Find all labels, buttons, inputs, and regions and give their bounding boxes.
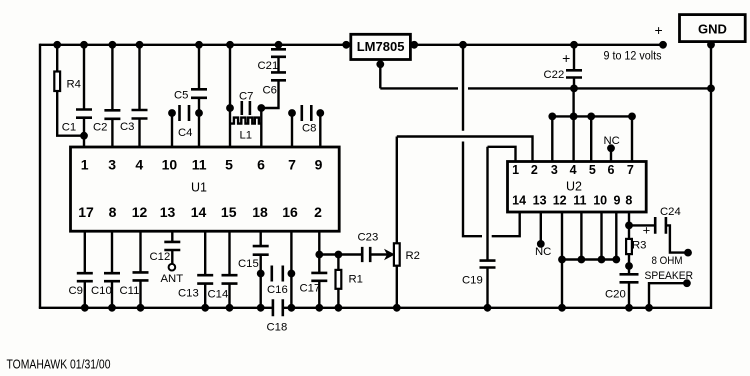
label C15 (238, 258, 259, 270)
junction: + supply terminal (659, 41, 667, 49)
label 8 OHM (652, 255, 683, 267)
label + (battery positive) (655, 22, 663, 38)
junction: ground link at right border (707, 85, 715, 93)
pin 10 label (U2 bottom row) (593, 194, 607, 208)
junction: ground rail at C18 right (288, 304, 296, 312)
label C9 (69, 285, 83, 297)
wire: U1 pin 2 column (318, 231, 320, 273)
junction: C16 left node (257, 270, 265, 278)
capacitor C2 (104, 110, 120, 119)
svg-text:GND: GND (698, 22, 727, 37)
pin 4 label (U2 top row) (570, 163, 577, 177)
junction: ground rail at R1 (335, 304, 343, 312)
capacitor C16 (272, 266, 283, 282)
junction: top bus at pin 7 (628, 113, 636, 121)
junction: C16 right node (288, 270, 296, 278)
wire: bottom ground rail (C18 to right border) (283, 307, 711, 309)
wire: C24 to speaker + terminal (666, 225, 688, 252)
junction: ground rail at C13 (201, 304, 209, 312)
svg-text:C11: C11 (120, 285, 140, 297)
label C20 (605, 289, 626, 301)
wire: U1 pin 13 to C12 (171, 231, 173, 242)
label C3 (120, 121, 134, 133)
wire: C22 bottom lead to ground link (573, 78, 575, 89)
label + (C24 polarity) (643, 223, 651, 238)
svg-text:C23: C23 (358, 232, 379, 244)
svg-text:C5: C5 (174, 90, 188, 102)
wire: R2 bottom lead to ground rail (396, 266, 398, 308)
pin 9 label (U2 bottom row) (614, 194, 621, 208)
wire: R2 wiper node to U2 pin 2 (397, 137, 533, 162)
svg-text:C10: C10 (91, 285, 112, 297)
wire: C9 to ground rail (84, 281, 86, 308)
svg-text:10: 10 (162, 157, 178, 173)
junction: top rail at R4 (53, 41, 61, 49)
junction: ground rail at C11 (137, 304, 145, 312)
wire: U1 pin 16 column to ground rail (290, 231, 292, 308)
junction: C8 left node (288, 109, 296, 117)
label R2 (406, 250, 420, 262)
svg-text:C2: C2 (93, 122, 107, 134)
pin 13 label (U1 bottom row) (160, 204, 176, 220)
junction: bottom bus at pin 12 (558, 256, 566, 264)
capacitor C14 (222, 275, 238, 283)
svg-text:C15: C15 (238, 258, 259, 270)
junction: top rail at C3 (136, 41, 144, 49)
pin 8 label (U1 bottom row) (109, 204, 117, 220)
junction: top rail at C22 (570, 41, 578, 49)
junction: ground rail at R2 (393, 304, 401, 312)
svg-text:2: 2 (314, 204, 322, 220)
wire: C15 to C16/C18 column (260, 255, 262, 308)
junction: C8 right node (316, 109, 324, 117)
pin 1 label (U2 top row) (512, 163, 519, 177)
pin 18 label (U1 bottom row) (252, 204, 268, 220)
svg-text:C24: C24 (660, 206, 681, 218)
pin 7 label (U1 top row) (288, 157, 296, 173)
capacitor C12 (164, 242, 180, 250)
svg-text:+: + (655, 22, 663, 38)
wire: C2 top lead (111, 45, 113, 111)
wire: C19 top node to U2 pin 1 (488, 147, 516, 162)
wire: U1 pin 12 to C11 (139, 231, 141, 272)
capacitor C11 (133, 272, 149, 280)
label U2 (566, 180, 582, 194)
junction: ground rail at U2 pin 12 column (558, 304, 566, 312)
junction: C7 left node (226, 104, 234, 112)
svg-text:9: 9 (315, 157, 323, 173)
wire: C23 to R2 wiper (370, 253, 388, 255)
wire: right border bus from GND (710, 41, 712, 309)
capacitor C9 (77, 273, 93, 281)
wire: C22 node down to U2 pin 4 (572, 88, 574, 161)
ground terminal GND (680, 15, 746, 42)
wire: R4 bottom lead to C1 node (57, 91, 84, 136)
label C14 (208, 289, 229, 301)
capacitor C18 (in ground rail) (273, 299, 283, 316)
label C1 (62, 122, 76, 134)
pin 11 label (U1 top row) (192, 157, 207, 173)
label LM7805 (357, 39, 405, 54)
svg-text:6: 6 (608, 163, 615, 177)
wire: pin 5 column (rail to U1 pin 5) (229, 45, 231, 147)
junction: ground rail at C20 (625, 304, 633, 312)
label GND (698, 22, 727, 37)
wire: R4 top lead (56, 45, 58, 72)
svg-text:C7: C7 (239, 91, 253, 103)
label title TOMAHAWK 01/31/00 (7, 358, 111, 372)
label 9 to 12 volts (604, 51, 662, 63)
svg-text:C8: C8 (302, 123, 316, 135)
svg-text:11: 11 (192, 157, 207, 173)
junction: LM7805 input pin (342, 41, 350, 49)
pin 9 label (U1 top row) (315, 157, 323, 173)
pin 1 label (U1 top row) (81, 157, 89, 173)
junction: pin 2 node (C17/R1/C23) (315, 251, 323, 259)
svg-text:16: 16 (282, 204, 298, 220)
label NC (U2 pin 13) (535, 246, 551, 258)
junction: C7 right / L1 / C6 node (257, 104, 265, 112)
capacitor C4 (180, 105, 190, 121)
wire: C11 to ground rail (139, 280, 141, 307)
pin 2 label (U1 bottom row) (314, 204, 322, 220)
label L1 (240, 130, 253, 142)
wire: R3/C20 node to C20 (628, 266, 630, 274)
pin 4 label (U1 top row) (135, 157, 143, 173)
potentiometer R2 (394, 243, 400, 265)
pin 3 label (U2 top row) (551, 163, 558, 177)
wire: top +V supply rail (LM7805 output to + terminal) (414, 44, 663, 46)
svg-text:R1: R1 (349, 274, 363, 286)
junction: bottom bus at pin 11 (578, 256, 586, 264)
wire: left border bus (39, 44, 41, 308)
label C2 (93, 122, 107, 134)
junction: top bus at pin 5 (587, 113, 595, 121)
junction: C4 right / C5 node (195, 109, 203, 117)
svg-text:3: 3 (108, 157, 116, 173)
pin 3 label (U1 top row) (108, 157, 116, 173)
svg-text:12: 12 (132, 204, 148, 220)
wire: C12 to antenna terminal (171, 250, 173, 264)
wire: ground link rail (crossover to right border) (468, 87, 711, 89)
svg-text:C16: C16 (267, 284, 288, 296)
label ANT (161, 273, 184, 285)
svg-text:5: 5 (589, 163, 596, 177)
label R3 (632, 240, 646, 252)
wire: R1 top lead (337, 255, 339, 270)
regulator U3 LM7805 (351, 34, 411, 59)
svg-text:C9: C9 (69, 285, 83, 297)
label C7 (239, 91, 253, 103)
wire: C1 bottom lead to U1 pin 1 (83, 118, 85, 147)
junction: GND box pin (707, 41, 715, 49)
junction: C4 left node (168, 109, 176, 117)
capacitor C17 (311, 273, 327, 281)
capacitor C7 (242, 101, 250, 115)
label C16 (267, 284, 288, 296)
svg-text:+: + (643, 223, 651, 238)
wire: C8 left lead to U1 pin 7 (291, 113, 293, 147)
wire: C5 top lead (198, 45, 200, 90)
junction: bottom bus at pin 9 (612, 256, 620, 264)
junction: top rail at C5 (195, 41, 203, 49)
svg-text:7: 7 (288, 157, 296, 173)
wire: C17 to ground rail (318, 281, 320, 308)
wire: U1 pin 17 to C9 (84, 231, 86, 273)
label C17 (300, 283, 321, 295)
svg-text:1: 1 (81, 157, 89, 173)
pin 16 label (U1 bottom row) (282, 204, 298, 220)
svg-text:LM7805: LM7805 (357, 39, 405, 54)
wire: U2 pin 3 stub (551, 116, 553, 161)
label R1 (349, 274, 363, 286)
wire: U2 pin 12 column to ground rail (561, 212, 563, 308)
junction: ground rail at C9 (81, 304, 89, 312)
arrow: R2 wiper (385, 250, 394, 259)
wire: U2 pin 8 stub (628, 212, 630, 225)
capacitor C23 (362, 247, 370, 262)
capacitor C20 (620, 274, 639, 282)
wire: U1 pin 18 to C15 (260, 231, 262, 246)
resistor R3 (626, 239, 632, 254)
wire: U2 bottom junction bus (562, 258, 616, 260)
wire: ground link rail (LM7805 to crossover) (380, 87, 458, 89)
wire: U2 top junction bus (552, 115, 632, 117)
label C8 (302, 123, 316, 135)
svg-text:C20: C20 (605, 289, 626, 301)
label SPEAKER (645, 270, 694, 282)
svg-text:8: 8 (625, 194, 632, 208)
wire: R3 top lead (628, 225, 630, 239)
pin 6 label (U1 top row) (257, 157, 265, 173)
wire: L1/C7 right column to U1 pin 6 (260, 108, 262, 147)
wire: +5V drop (rail to crossover at U2 pin2 wire) (462, 45, 464, 131)
wire: pin 8 node to C24 (629, 224, 655, 226)
svg-text:C22: C22 (544, 69, 565, 81)
pin 14 label (U1 bottom row) (191, 204, 207, 220)
pin 15 label (U1 bottom row) (221, 204, 237, 220)
svg-text:7: 7 (627, 163, 634, 177)
capacitor C22 (566, 70, 582, 77)
wire: +5V drop (crossover to bend) (463, 142, 482, 237)
wire: bottom ground rail (left segment to C18) (39, 307, 273, 309)
wire: U2 pin 7 stub (631, 116, 633, 161)
junction: ground rail at C14 (226, 304, 234, 312)
pin 17 label (U1 bottom row) (78, 204, 94, 220)
junction: C22 at ground link (570, 85, 578, 93)
wire: speaker return to ground rail (649, 283, 687, 308)
wire: C3 top lead (138, 45, 140, 110)
label C13 (178, 288, 199, 300)
pin 5 label (U2 top row) (589, 163, 596, 177)
wire: C8 right lead to U1 pin 9 (319, 113, 321, 147)
wire: C5 bottom / C4 node to U1 pin 11 (198, 98, 200, 147)
wire: R3 bottom lead (628, 254, 630, 266)
junction: top rail at L1/C7 column (226, 41, 234, 49)
svg-text:8: 8 (109, 204, 117, 220)
svg-text:14: 14 (191, 204, 207, 220)
capacitor C13 (197, 275, 213, 283)
pin 11 label (U2 bottom row) (573, 194, 586, 208)
node: speaker + terminal (684, 249, 692, 257)
junction: R3 / C20 node (625, 262, 633, 270)
resistor R1 (336, 270, 342, 289)
label C24 (660, 206, 681, 218)
junction: R1 top node (335, 251, 343, 259)
wire: C2 bottom lead to U1 pin 3 (111, 119, 113, 147)
wire: R1 bottom lead to ground rail (337, 289, 339, 308)
wire: +5V feed to U2 pin 14 (after crossover) (492, 212, 520, 236)
svg-text:NC: NC (535, 246, 551, 258)
op-amp U1 (IC body) (71, 147, 340, 231)
wire: U2 pin 13 stub to NC (540, 212, 542, 244)
svg-text:3: 3 (551, 163, 558, 177)
wire: C20 to ground rail (628, 282, 630, 308)
capacitor C1 (76, 110, 92, 118)
svg-text:C19: C19 (462, 275, 483, 287)
svg-text:ANT: ANT (161, 273, 184, 285)
node ANT: antenna terminal (169, 264, 176, 271)
label C12 (150, 251, 171, 263)
pin 12 label (U2 bottom row) (553, 194, 567, 208)
wire: C6 bottom lead to C7 node (261, 80, 278, 108)
pin 6 label (U2 top row) (608, 163, 615, 177)
label U1 (191, 181, 207, 195)
capacitor C5 (191, 89, 207, 98)
svg-text:R4: R4 (67, 79, 81, 91)
svg-text:C6: C6 (263, 85, 277, 97)
label C23 (358, 232, 379, 244)
svg-text:C21: C21 (258, 60, 279, 72)
node NC: U2 pin 13 no-connect (537, 240, 545, 248)
inductor L1 (230, 118, 262, 124)
svg-text:R2: R2 (406, 250, 420, 262)
junction: top rail at C2 (109, 41, 117, 49)
label C22 (544, 69, 565, 81)
svg-text:6: 6 (257, 157, 265, 173)
svg-text:18: 18 (252, 204, 268, 220)
svg-text:15: 15 (221, 204, 237, 220)
pin 8 label (U2 bottom row) (625, 194, 632, 208)
capacitor C10 (104, 273, 120, 281)
capacitor C21 (271, 49, 286, 57)
label C5 (174, 90, 188, 102)
svg-text:10: 10 (593, 194, 607, 208)
wire: C19 top lead (U2 pin 1 node down) (486, 147, 488, 261)
svg-text:9: 9 (614, 194, 621, 208)
svg-text:14: 14 (512, 194, 526, 208)
pin 14 label (U2 bottom row) (512, 194, 526, 208)
capacitor C24 (655, 217, 666, 234)
wire: pin 2 node to C23 (319, 253, 362, 255)
svg-text:13: 13 (533, 194, 547, 208)
junction: ground rail at C17 (315, 304, 323, 312)
svg-text:C1: C1 (62, 122, 76, 134)
pin 10 label (U1 top row) (162, 157, 178, 173)
label C11 (120, 285, 140, 297)
wire: C10 to ground rail (111, 281, 113, 308)
junction: top rail at C1 (80, 41, 88, 49)
junction: ground rail at C10 (108, 304, 116, 312)
capacitor C3 (132, 110, 148, 119)
svg-text:1: 1 (512, 163, 519, 177)
svg-text:TOMAHAWK 01/31/00: TOMAHAWK 01/31/00 (7, 358, 111, 372)
junction: bottom bus at pin 10 (598, 256, 606, 264)
wire: C13 to ground rail (204, 284, 206, 308)
svg-text:13: 13 (160, 204, 176, 220)
wire: C4 left lead to U1 pin 10 (171, 113, 173, 147)
svg-text:C3: C3 (120, 121, 134, 133)
label C21 (258, 60, 279, 72)
resistor R4 (54, 72, 60, 92)
wire: C19 bottom lead to ground rail (486, 268, 488, 308)
junction: top bus at pin 4 (570, 113, 578, 121)
label R4 (67, 79, 81, 91)
wire: LM7805 ground pin down (379, 60, 381, 89)
svg-text:4: 4 (135, 157, 143, 173)
svg-text:C17: C17 (300, 283, 321, 295)
label C19 (462, 275, 483, 287)
wire: C1 top lead (83, 45, 85, 110)
label C4 (178, 127, 192, 139)
node NC: U2 pin 6 no-connect (607, 144, 615, 152)
wire: U1 pin 8 to C10 (111, 231, 113, 273)
label + (C22 polarity) (562, 50, 570, 66)
wire: R2 top lead (from U2 pin 2 wire) (396, 137, 398, 244)
junction: LM7805 output pin (410, 41, 418, 49)
wire: U1 pin 15 to C14 (228, 231, 230, 275)
wire: C3 bottom lead to U1 pin 4 (138, 119, 140, 148)
junction: ground rail at C18 left (257, 304, 265, 312)
junction: ground rail at C19 (484, 304, 492, 312)
svg-text:2: 2 (531, 163, 538, 177)
svg-text:9 to 12 volts: 9 to 12 volts (604, 51, 662, 63)
wire: U2 pin 11 stub (580, 212, 582, 260)
label C10 (91, 285, 112, 297)
wire: C14 to ground rail (228, 284, 230, 308)
svg-text:8 OHM: 8 OHM (652, 255, 683, 267)
junction: pin 8 node (R3/C24) (625, 222, 633, 230)
junction: top rail to +5V drop wire (459, 41, 467, 49)
capacitor C8 (302, 105, 312, 121)
wire: U1 pin 14 to C13 (204, 231, 206, 275)
svg-text:U1: U1 (191, 181, 207, 195)
label C6 (263, 85, 277, 97)
capacitor C6 (271, 72, 286, 80)
node: speaker - terminal (683, 279, 691, 287)
junction: LM7805 ground pin (376, 60, 384, 68)
svg-text:5: 5 (225, 157, 233, 173)
junction: R4 / C1 node (80, 132, 88, 140)
wire: U2 pin 5 stub (590, 116, 592, 161)
IC U2 (body) (508, 162, 647, 213)
junction: top bus at pin 3 (548, 113, 556, 121)
pin 2 label (U2 top row) (531, 163, 538, 177)
wire: top +V supply rail (left segment to LM7805 input) (40, 44, 346, 46)
svg-text:12: 12 (553, 194, 567, 208)
wire: U2 pin 6 stub (610, 148, 612, 161)
capacitor C15 (253, 246, 269, 255)
svg-text:C12: C12 (150, 251, 171, 263)
wire: C22 top lead (573, 45, 575, 71)
wire: U2 pin 9 stub (615, 212, 617, 260)
wire: U2 pin 10 stub (600, 212, 602, 260)
svg-text:C18: C18 (267, 322, 288, 334)
pin 5 label (U1 top row) (225, 157, 233, 173)
svg-text:C13: C13 (178, 288, 199, 300)
svg-text:L1: L1 (240, 130, 253, 142)
svg-text:11: 11 (573, 194, 586, 208)
